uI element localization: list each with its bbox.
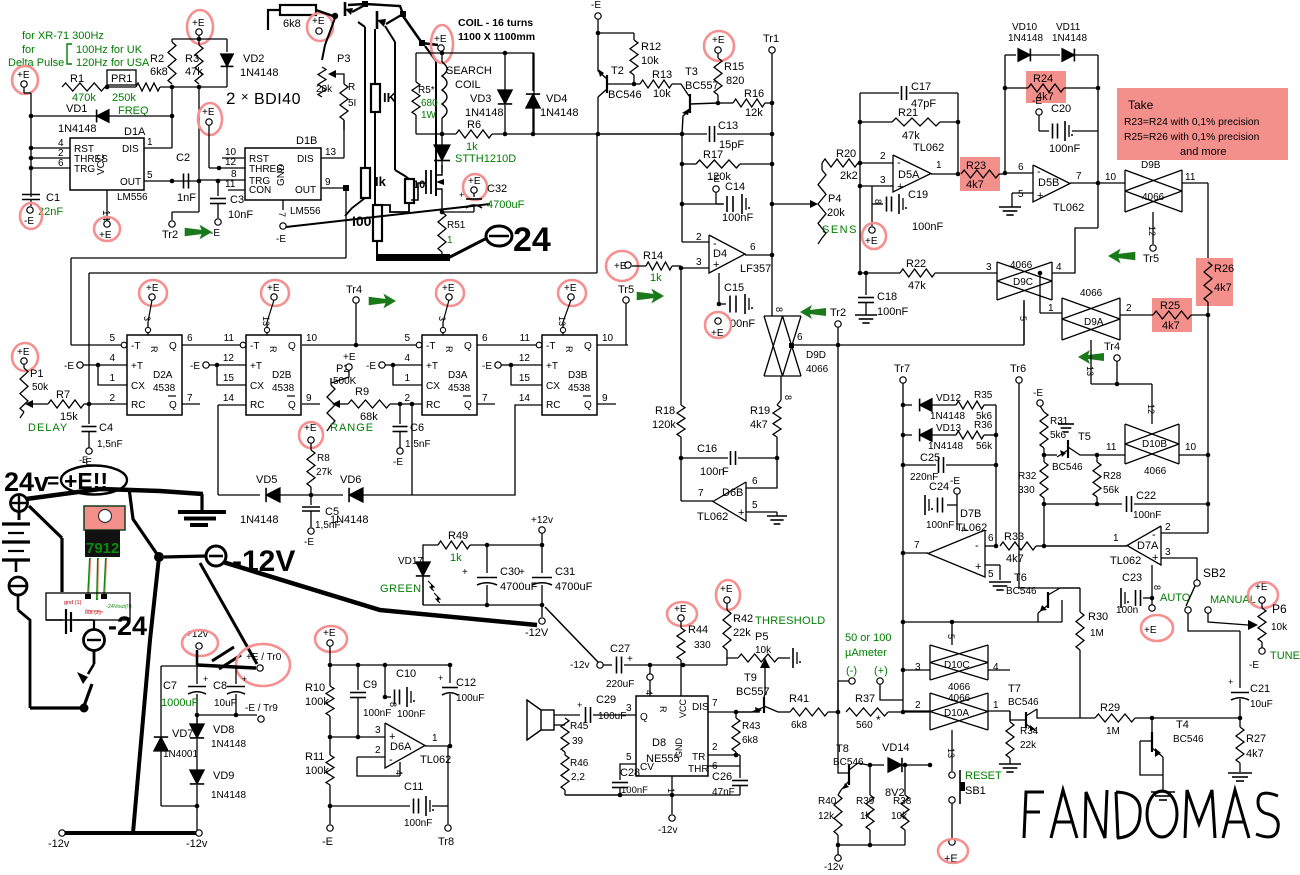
svg-text:47nF: 47nF bbox=[712, 787, 735, 798]
svg-text:1,5nF: 1,5nF bbox=[97, 439, 123, 450]
svg-text:C4: C4 bbox=[99, 422, 113, 434]
svg-text:R: R bbox=[564, 346, 574, 353]
battery cells bbox=[2, 512, 30, 572]
capacitor C30 (4700uF) bbox=[462, 545, 538, 607]
green arrow (Tr4 mid) bbox=[369, 294, 396, 309]
wire VD9 to -12v rail bbox=[186, 806, 208, 850]
diode VD10 bbox=[1005, 22, 1060, 173]
svg-text:-12v: -12v bbox=[186, 838, 208, 850]
resistor R26 (matched, highlighted) bbox=[1196, 258, 1234, 306]
svg-text:D9B: D9B bbox=[1141, 160, 1161, 171]
resistor R36 bbox=[956, 420, 998, 465]
svg-text:R10: R10 bbox=[305, 682, 325, 694]
terminal Tr4 (mid) bbox=[346, 284, 362, 345]
pin 13 DIS D1B bbox=[321, 120, 344, 158]
pin 4 D6A supply bbox=[394, 762, 404, 776]
svg-text:C11: C11 bbox=[404, 781, 423, 793]
svg-text:R13: R13 bbox=[652, 69, 672, 81]
svg-text:Q: Q bbox=[584, 400, 592, 411]
svg-text:D9D: D9D bbox=[806, 350, 826, 361]
svg-text:7: 7 bbox=[187, 393, 193, 404]
wire R14 node to R18 bbox=[680, 268, 682, 405]
svg-text:BC546: BC546 bbox=[608, 89, 642, 101]
svg-text:12: 12 bbox=[1146, 404, 1156, 414]
svg-text:D2B: D2B bbox=[272, 370, 292, 381]
svg-text:6: 6 bbox=[752, 476, 758, 487]
svg-text:1: 1 bbox=[109, 373, 115, 384]
svg-text:100k: 100k bbox=[305, 765, 329, 777]
power switch (hand) bbox=[30, 664, 94, 713]
regulator legs bbox=[85, 558, 107, 600]
svg-text:+: + bbox=[438, 673, 443, 683]
svg-text:THRESHOLD: THRESHOLD bbox=[755, 615, 826, 627]
resistor R40 bbox=[818, 790, 842, 845]
svg-text:10k: 10k bbox=[653, 88, 671, 100]
svg-text:R32: R32 bbox=[1018, 471, 1037, 482]
IC D2B (4538) bbox=[223, 316, 318, 415]
IC D8 (NE555) bbox=[636, 696, 709, 776]
svg-text:13: 13 bbox=[1085, 366, 1095, 376]
terminal TUNE bbox=[1249, 642, 1300, 671]
pin 7 Qb D2A stub bbox=[182, 403, 200, 405]
svg-text:GND: GND bbox=[276, 164, 287, 186]
pin 8 TRG D1B bbox=[199, 169, 245, 180]
svg-text:2: 2 bbox=[1126, 303, 1132, 314]
svg-text:LF357: LF357 bbox=[740, 263, 771, 275]
svg-text:-E: -E bbox=[24, 216, 34, 227]
cap marker (P5 right) bbox=[793, 648, 801, 668]
svg-text:Take: Take bbox=[1128, 98, 1154, 112]
svg-text:6: 6 bbox=[58, 158, 64, 169]
svg-text:-E: -E bbox=[393, 457, 403, 468]
svg-text:TL062: TL062 bbox=[420, 754, 451, 766]
svg-text:5: 5 bbox=[946, 634, 956, 639]
svg-text:T8: T8 bbox=[836, 743, 849, 755]
svg-text:-12v: -12v bbox=[48, 838, 70, 850]
pin 5 D10C control bbox=[946, 620, 956, 645]
svg-text:+: + bbox=[203, 674, 208, 684]
resistor R49 bbox=[423, 530, 544, 605]
svg-text:VD9: VD9 bbox=[213, 770, 234, 782]
svg-text:Q: Q bbox=[169, 400, 177, 411]
svg-text:C27: C27 bbox=[610, 643, 630, 655]
svg-text:C23: C23 bbox=[1122, 572, 1142, 584]
svg-text:R44: R44 bbox=[688, 624, 708, 636]
svg-text:SEARCH: SEARCH bbox=[446, 65, 492, 77]
svg-text:-: - bbox=[1037, 166, 1041, 178]
svg-text:220uF: 220uF bbox=[606, 679, 634, 690]
svg-text:12: 12 bbox=[519, 353, 531, 364]
svg-text:7: 7 bbox=[1076, 171, 1082, 182]
svg-text:-12v: -12v bbox=[658, 825, 677, 836]
svg-text:R14: R14 bbox=[643, 250, 663, 262]
svg-text:-E: -E bbox=[591, 0, 601, 11]
svg-text:7: 7 bbox=[277, 212, 287, 217]
power node -E (T2) bbox=[591, 0, 601, 19]
ground (D6B pin5) bbox=[767, 512, 787, 524]
svg-text:1: 1 bbox=[936, 160, 942, 171]
resistor R21 bbox=[860, 107, 958, 142]
svg-text:10: 10 bbox=[602, 333, 614, 344]
svg-text:R3: R3 bbox=[185, 53, 199, 65]
pin 8 D9D control bbox=[777, 376, 793, 405]
pin 14 RC D2B wire bbox=[218, 405, 246, 495]
svg-text:1N4148: 1N4148 bbox=[211, 739, 246, 750]
potentiometer P6 bbox=[1208, 602, 1288, 642]
svg-text:C25: C25 bbox=[920, 452, 940, 464]
svg-text:2: 2 bbox=[696, 232, 702, 243]
capacitor C26 bbox=[712, 766, 748, 798]
transistor BD140 #2 bbox=[377, 11, 403, 29]
svg-text:R30: R30 bbox=[1088, 611, 1108, 623]
svg-text:C13: C13 bbox=[718, 120, 738, 132]
capacitor C25 bbox=[901, 452, 999, 548]
capacitor C13 bbox=[596, 120, 775, 151]
meter terminal plus bbox=[877, 678, 903, 700]
svg-text:-E: -E bbox=[210, 228, 220, 239]
svg-text:-12V: -12V bbox=[525, 627, 549, 639]
pin 5 D6B bbox=[746, 500, 777, 512]
terminal Tr8 bbox=[438, 746, 454, 848]
svg-text:C31: C31 bbox=[555, 566, 575, 578]
capacitor C3 bbox=[210, 179, 253, 221]
power node +E (D2A) bbox=[139, 280, 167, 322]
svg-text:VD11: VD11 bbox=[1056, 22, 1081, 33]
capacitor C23 bbox=[1116, 565, 1162, 616]
svg-text:3: 3 bbox=[142, 316, 152, 321]
svg-text:10uF: 10uF bbox=[214, 698, 237, 709]
svg-text:C21: C21 bbox=[1250, 683, 1270, 695]
terminal Tr4 (right) bbox=[1104, 341, 1120, 386]
svg-text:=: = bbox=[47, 470, 59, 493]
svg-text:C10: C10 bbox=[396, 668, 416, 680]
svg-text:14: 14 bbox=[223, 393, 235, 404]
label GREEN bbox=[380, 583, 422, 595]
wire Tr2 bus down bbox=[837, 345, 839, 712]
op-amp D7A (TL062) bbox=[1110, 526, 1161, 567]
svg-text:D5A: D5A bbox=[898, 169, 920, 181]
svg-text:Tr1: Tr1 bbox=[763, 33, 779, 45]
svg-text:8: 8 bbox=[1152, 585, 1162, 590]
inductor search coil bbox=[442, 62, 447, 118]
pin 5 OUT D1A bbox=[144, 170, 181, 183]
svg-text:R: R bbox=[268, 346, 278, 353]
svg-text:-E: -E bbox=[482, 361, 492, 372]
svg-text:1N4001: 1N4001 bbox=[163, 749, 198, 760]
capacitor C31 (4700uF) bbox=[519, 545, 593, 607]
svg-text:10k: 10k bbox=[1271, 622, 1288, 633]
svg-text:+: + bbox=[627, 654, 633, 665]
svg-text:Tr6: Tr6 bbox=[1010, 363, 1026, 375]
pin 9 OUT D1B bbox=[321, 177, 349, 191]
-E stub D2B bbox=[190, 361, 246, 385]
svg-text:120k: 120k bbox=[652, 419, 676, 431]
svg-text:Q: Q bbox=[169, 341, 177, 352]
svg-text:RC: RC bbox=[426, 400, 440, 411]
power node +E (R42) bbox=[716, 580, 740, 610]
svg-text:BC546: BC546 bbox=[1008, 697, 1039, 708]
capacitor C12 bbox=[438, 665, 484, 746]
svg-text:10k: 10k bbox=[891, 811, 908, 822]
svg-text:4066: 4066 bbox=[1010, 260, 1033, 271]
svg-text:R7: R7 bbox=[56, 389, 70, 401]
power node -E (C6) bbox=[393, 448, 403, 468]
pin 8 marker (D9D top) bbox=[774, 307, 784, 312]
svg-text:CX: CX bbox=[131, 381, 145, 392]
wire R26 bus bbox=[1206, 302, 1211, 533]
svg-text:100nF: 100nF bbox=[722, 212, 753, 224]
svg-text:1N4148: 1N4148 bbox=[540, 107, 579, 119]
svg-text:12k: 12k bbox=[745, 107, 763, 119]
-E stub D3B bbox=[482, 361, 542, 385]
diode VD11 bbox=[1052, 22, 1098, 88]
svg-text:1N4148: 1N4148 bbox=[1052, 33, 1087, 44]
svg-text:T9: T9 bbox=[744, 672, 757, 684]
diode VD7 bbox=[154, 728, 199, 806]
svg-text:SB1: SB1 bbox=[965, 785, 986, 797]
IC D2A (4538) bbox=[109, 316, 193, 415]
svg-text:100nF: 100nF bbox=[1049, 143, 1080, 155]
svg-text:4: 4 bbox=[109, 353, 115, 364]
wire BD140 cluster top (thick) bbox=[348, 1, 438, 46]
pushbutton SB1 (RESET) bbox=[949, 765, 1002, 838]
svg-text:8: 8 bbox=[388, 702, 398, 707]
label gnd(1) (red) bbox=[64, 600, 82, 606]
capacitor C28 bbox=[612, 767, 648, 797]
svg-text:R22: R22 bbox=[906, 258, 926, 270]
svg-text:3: 3 bbox=[626, 703, 632, 714]
capacitor C4 bbox=[82, 404, 123, 450]
svg-text:4: 4 bbox=[404, 353, 410, 364]
svg-text:+E: +E bbox=[442, 283, 455, 294]
svg-text:13: 13 bbox=[325, 147, 337, 158]
svg-text:1N4148: 1N4148 bbox=[58, 123, 97, 135]
resistor 6k8 (box style) bbox=[280, 5, 316, 30]
label out(2) (red) bbox=[85, 610, 103, 616]
svg-text:R18: R18 bbox=[655, 405, 675, 417]
transistor T5 (BC546) bbox=[1044, 431, 1097, 473]
svg-text:Tr8: Tr8 bbox=[438, 836, 454, 848]
svg-text:4066: 4066 bbox=[1080, 288, 1103, 299]
svg-text:11: 11 bbox=[225, 179, 236, 190]
svg-text:+T: +T bbox=[250, 361, 262, 372]
battery plus terminal bbox=[11, 495, 28, 512]
power node +E (D6A) bbox=[315, 626, 347, 652]
svg-text:24v: 24v bbox=[4, 467, 49, 497]
terminal Tr5 (mid) bbox=[618, 284, 634, 345]
svg-text:BC546: BC546 bbox=[1006, 586, 1037, 597]
green arrow (Tr5 mid) bbox=[637, 289, 664, 304]
svg-text:D7A: D7A bbox=[1137, 540, 1159, 552]
svg-text:VCC: VCC bbox=[678, 698, 688, 718]
resistor R16 bbox=[718, 88, 774, 119]
svg-text:C26: C26 bbox=[712, 771, 732, 783]
svg-text:6k8: 6k8 bbox=[742, 735, 759, 746]
terminal Tr2 (top-left) bbox=[162, 221, 178, 241]
svg-text:R46: R46 bbox=[570, 758, 589, 769]
resistor R31 bbox=[1040, 406, 1069, 457]
svg-text:1N4148: 1N4148 bbox=[211, 790, 246, 801]
svg-text:STTH1210D: STTH1210D bbox=[455, 153, 516, 165]
resistor R1 bbox=[62, 73, 109, 104]
svg-text:+E: +E bbox=[323, 628, 336, 639]
svg-text:15: 15 bbox=[223, 373, 235, 384]
svg-text:+E: +E bbox=[674, 604, 687, 615]
svg-text:R15: R15 bbox=[724, 61, 744, 73]
svg-text:Tr5: Tr5 bbox=[1143, 253, 1159, 265]
svg-text:BC546: BC546 bbox=[1173, 734, 1204, 745]
svg-text:-E: -E bbox=[1249, 660, 1259, 671]
svg-text:100n: 100n bbox=[700, 466, 724, 478]
resistor R46 bbox=[561, 752, 620, 795]
svg-text:T5: T5 bbox=[1078, 431, 1091, 443]
wire D5B out bus down bbox=[1207, 183, 1209, 262]
svg-text:P5: P5 bbox=[755, 631, 768, 643]
capacitor C19 bbox=[872, 186, 943, 233]
svg-text:C16: C16 bbox=[697, 443, 717, 455]
svg-text:BC546: BC546 bbox=[1052, 462, 1083, 473]
resistor R2 bbox=[150, 42, 176, 84]
pin 7 GND D1B to -E bbox=[276, 200, 287, 245]
transistor T6 (BC546) bbox=[1006, 572, 1080, 622]
power node +E (R44) bbox=[667, 602, 697, 626]
resistor R12 bbox=[630, 40, 661, 84]
pin 12 THRES D1B bbox=[209, 125, 245, 170]
wire cluster vertical b bbox=[374, 29, 376, 84]
svg-text:+: + bbox=[1228, 677, 1233, 687]
svg-text:+: + bbox=[897, 181, 903, 193]
pin 12 D9B control to Tr5 bbox=[1143, 212, 1159, 265]
svg-text:-: - bbox=[713, 238, 717, 250]
resistor R10 bbox=[305, 682, 334, 716]
svg-text:4k7: 4k7 bbox=[1162, 320, 1180, 332]
wire C7 block rails bbox=[161, 652, 257, 735]
thick power rail bbox=[26, 489, 203, 499]
svg-text:2: 2 bbox=[915, 700, 921, 711]
power node -E (C5) bbox=[304, 528, 314, 548]
svg-text:+: + bbox=[738, 507, 744, 519]
power node -E (R31) bbox=[1033, 388, 1043, 406]
pin 2 D6A bbox=[357, 745, 400, 776]
capacitor C24 bbox=[925, 476, 969, 532]
svg-text:1N4148: 1N4148 bbox=[240, 67, 279, 79]
svg-text:68k: 68k bbox=[360, 411, 378, 423]
svg-text:4700uF: 4700uF bbox=[500, 581, 538, 593]
svg-text:6: 6 bbox=[1018, 162, 1024, 173]
svg-text:C8: C8 bbox=[213, 680, 227, 692]
diode VD1 bbox=[29, 103, 172, 135]
svg-text:+E: +E bbox=[343, 352, 356, 363]
svg-text:4: 4 bbox=[1056, 262, 1062, 273]
svg-text:10k: 10k bbox=[755, 645, 772, 656]
wire 6k8 left loop bbox=[268, 10, 280, 30]
pin 10 RST D1B bbox=[222, 147, 245, 158]
svg-text:CX: CX bbox=[250, 381, 264, 392]
svg-text:-: - bbox=[975, 540, 979, 552]
resistor R44 bbox=[677, 621, 711, 665]
svg-text:11: 11 bbox=[520, 333, 531, 344]
svg-text:8: 8 bbox=[774, 307, 784, 312]
svg-text:2,2: 2,2 bbox=[571, 772, 585, 783]
svg-text:D2A: D2A bbox=[153, 370, 173, 381]
analog switch D10C (4066) bbox=[901, 645, 1010, 680]
svg-text:22k: 22k bbox=[1020, 740, 1037, 751]
svg-text:TL062: TL062 bbox=[956, 522, 987, 534]
svg-text:1: 1 bbox=[993, 700, 999, 711]
capacitor C8 (10uF) bbox=[213, 674, 247, 709]
thick wire -12V node to bottom rail bbox=[133, 557, 159, 833]
svg-text:CX: CX bbox=[426, 381, 440, 392]
svg-text:C15: C15 bbox=[724, 282, 744, 294]
svg-text:R2: R2 bbox=[150, 53, 164, 65]
svg-text:11: 11 bbox=[1185, 172, 1196, 183]
terminal Tr7 bbox=[894, 363, 910, 712]
green arrow (D9A control) bbox=[1078, 350, 1104, 364]
pin 2 TR D8 bbox=[708, 742, 740, 757]
svg-text:I00: I00 bbox=[352, 213, 372, 229]
transistor T3 (BC557) bbox=[682, 66, 719, 134]
svg-text:4066: 4066 bbox=[1142, 192, 1165, 203]
svg-text:2: 2 bbox=[109, 393, 115, 404]
analog switch D10B (4066) bbox=[1125, 424, 1208, 477]
svg-text:13: 13 bbox=[557, 316, 567, 326]
svg-text:-T: -T bbox=[131, 341, 140, 352]
svg-text:D7B: D7B bbox=[960, 508, 981, 520]
svg-text:1M: 1M bbox=[1090, 628, 1104, 639]
svg-text:+12v: +12v bbox=[531, 515, 553, 526]
-12V output circle (hand) bbox=[164, 545, 295, 578]
svg-text:-24: -24 bbox=[108, 611, 147, 641]
svg-text:5: 5 bbox=[752, 500, 758, 511]
svg-text:C7: C7 bbox=[163, 680, 177, 692]
resistor R39 bbox=[856, 765, 875, 845]
svg-text:C22: C22 bbox=[1136, 490, 1156, 502]
svg-text:-E: -E bbox=[322, 836, 333, 848]
svg-text:10nF: 10nF bbox=[228, 209, 253, 221]
svg-text:680: 680 bbox=[421, 98, 438, 109]
svg-text:5: 5 bbox=[147, 170, 153, 181]
svg-text:R20: R20 bbox=[836, 148, 856, 160]
ground (R34) bbox=[999, 758, 1021, 772]
pin 1 D5A output bbox=[931, 160, 960, 176]
analog switch D9D (4066) bbox=[764, 316, 1024, 376]
pin 3 D7A bbox=[1161, 547, 1197, 580]
svg-text:VD7: VD7 bbox=[172, 728, 193, 740]
svg-text:-T: -T bbox=[250, 341, 259, 352]
-E stub D3A bbox=[366, 361, 422, 385]
svg-text:2: 2 bbox=[880, 151, 886, 162]
ground (T4) bbox=[1151, 792, 1175, 800]
svg-text:3: 3 bbox=[880, 175, 886, 186]
svg-text:µAmeter: µAmeter bbox=[845, 647, 887, 659]
svg-text:100nF: 100nF bbox=[877, 306, 908, 318]
svg-text:R21: R21 bbox=[898, 107, 918, 119]
resistor R34 bbox=[1006, 711, 1039, 758]
svg-text:R35: R35 bbox=[974, 390, 993, 401]
pin 1 GND D8 bbox=[565, 776, 740, 836]
svg-text:330: 330 bbox=[1018, 485, 1035, 496]
pin 7 D6B output bbox=[681, 488, 713, 501]
wire R23 to D5B node bbox=[999, 171, 1007, 176]
svg-text:12: 12 bbox=[1147, 226, 1157, 236]
svg-text:1N4148: 1N4148 bbox=[1008, 33, 1043, 44]
regulator 7912 (TO-220) bbox=[84, 506, 125, 557]
svg-text:4700uF: 4700uF bbox=[487, 199, 525, 211]
broken wire -12V to Tr0 (hand) bbox=[200, 563, 257, 664]
power node +E (left of R1) bbox=[12, 66, 38, 94]
label THRESHOLD bbox=[755, 615, 826, 627]
label DELAY bbox=[28, 422, 68, 434]
